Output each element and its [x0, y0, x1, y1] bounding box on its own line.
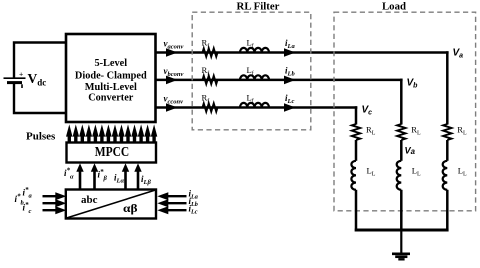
inductor LL (phase a)	[443, 161, 448, 190]
label iLb	[189, 196, 198, 208]
label LL (phase b)	[412, 166, 421, 178]
controller block MPCC	[67, 143, 157, 163]
pulse arrows: gating signals MPCC to converter	[66, 124, 157, 142]
arrow: vcconv direction	[166, 103, 178, 112]
inductor Lf (phase a)	[240, 48, 269, 53]
node Vc	[362, 105, 373, 117]
arrow: vbconv direction	[166, 76, 178, 85]
label i*beta	[98, 168, 108, 182]
arrow: reference current i*alpha to MPCC	[76, 163, 83, 189]
arrow: reference current i*a into abc block	[43, 192, 67, 200]
wire: branch b corner down to RL	[400, 79, 403, 125]
svg-text:Diode- Clamped: Diode- Clamped	[75, 70, 147, 81]
wire: branch c LL to bus	[355, 190, 358, 232]
label Vdc	[28, 71, 47, 88]
svg-text:Pulses: Pulses	[26, 131, 56, 143]
label vaconv	[164, 38, 184, 50]
label Load	[382, 0, 406, 12]
label RL (phase b)	[411, 125, 421, 137]
arrow: filter current iLb	[284, 76, 296, 85]
arrow: reference current i*c into abc block	[43, 206, 67, 214]
label iLbeta	[141, 174, 151, 186]
wire: branch a LL to bus	[446, 190, 449, 232]
arrow: load current iLbeta to MPCC	[134, 163, 141, 189]
resistor RL (phase b)	[397, 124, 405, 140]
wire: branch a corner down to RL	[446, 51, 449, 124]
ground	[392, 254, 410, 259]
arrow: load current iLc into abc block	[157, 206, 186, 214]
label iLa	[285, 38, 295, 50]
arrow: load current iLa into abc block	[157, 192, 186, 200]
svg-text:abc: abc	[81, 194, 98, 206]
label Rf (phase b)	[202, 65, 210, 77]
Load enclosure (dashed)	[334, 12, 476, 211]
wire: ground stem	[400, 230, 402, 253]
svg-text:RL Filter: RL Filter	[237, 0, 280, 12]
resistor Rf (phase a)	[203, 48, 218, 56]
label i*alpha	[64, 167, 74, 181]
label i*b	[15, 193, 25, 207]
wire: branch b RL to LL	[400, 140, 403, 161]
wire: converter output phase c to load branch corner	[156, 106, 358, 109]
label Lf (phase b)	[247, 65, 254, 77]
inductor LL (phase b)	[397, 161, 402, 190]
wire: branch b LL to bus	[400, 190, 403, 232]
resistor Rf (phase c)	[203, 103, 218, 111]
wire: battery to converter bottom	[14, 84, 66, 114]
wire: branch c RL to LL	[355, 140, 358, 161]
wire: converter output phase a to load branch corner	[156, 51, 449, 54]
label vbconv	[164, 66, 184, 78]
svg-text:5-Level: 5-Level	[94, 58, 127, 69]
label RL Filter	[237, 0, 280, 12]
svg-text:+: +	[19, 70, 23, 79]
resistor Rf (phase b)	[203, 76, 218, 84]
wire: battery to converter top	[14, 43, 66, 78]
label iLa	[189, 188, 198, 200]
resistor RL (phase a)	[443, 124, 451, 140]
arrow: reference current i*b into abc block	[43, 199, 67, 207]
label iLb	[285, 66, 295, 78]
inductor Lf (phase c)	[240, 103, 269, 108]
label i*c	[23, 201, 32, 215]
arrow: filter current iLc	[284, 103, 296, 112]
resistor RL (phase c)	[352, 124, 360, 140]
label LL (phase a)	[458, 166, 467, 178]
inductor Lf (phase b)	[240, 75, 269, 80]
label iLc	[189, 204, 198, 216]
label Lf (phase a)	[247, 38, 254, 50]
wire: converter output phase b to load branch corner	[156, 79, 403, 82]
battery Vdc	[4, 70, 26, 88]
label Rf (phase c)	[202, 93, 210, 105]
arrow: load current iLb into abc block	[157, 199, 186, 207]
label LL (phase c)	[367, 166, 376, 178]
svg-text:Converter: Converter	[88, 93, 134, 104]
node Vb	[407, 77, 419, 89]
svg-text:Va: Va	[405, 146, 416, 157]
svg-text:Multi-Level: Multi-Level	[85, 82, 137, 93]
converter block U1: 5-Level Diode-Clamped Multi-Level Converter	[66, 34, 156, 122]
label Lf (phase c)	[247, 93, 254, 105]
label i*a	[23, 186, 33, 200]
arrow: filter current iLa	[284, 48, 296, 57]
label Va (output voltage)	[405, 146, 416, 157]
arrow: load current iLalpha to MPCC	[122, 163, 129, 189]
wire: branch c corner down to RL	[355, 106, 358, 124]
label Rf (phase a)	[202, 38, 210, 50]
wire: branch a RL to LL	[446, 140, 449, 161]
label RL (phase a)	[457, 125, 467, 137]
label vcconv	[164, 93, 184, 105]
transform block abc to alpha-beta	[66, 190, 156, 219]
arrow: vaconv direction	[166, 48, 178, 57]
label iLalpha	[114, 173, 124, 185]
svg-text:αβ: αβ	[123, 203, 138, 215]
node Va	[453, 48, 464, 60]
arrow: reference current i*beta to MPCC	[91, 163, 98, 189]
inductor LL (phase c)	[351, 161, 356, 190]
svg-text:Load: Load	[382, 0, 406, 12]
label iLc	[285, 93, 294, 105]
svg-text:MPCC: MPCC	[95, 144, 130, 159]
RL Filter enclosure (dashed)	[192, 12, 311, 130]
label RL (phase c)	[366, 125, 376, 137]
wire: bottom bus	[355, 229, 449, 232]
label Pulses	[26, 131, 56, 143]
